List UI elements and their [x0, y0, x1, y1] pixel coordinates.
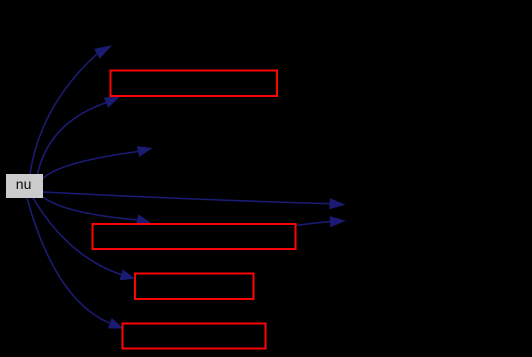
- arrowhead F: [136, 214, 151, 225]
- wire edge D nu to right node: [43, 192, 330, 204]
- wire edge C nu to mid node: [43, 152, 138, 179]
- wire edge A nu to top node: [30, 54, 97, 174]
- arrowhead H: [108, 318, 124, 329]
- wire edge F nu to box2: [43, 197, 137, 220]
- node box4: [123, 324, 266, 349]
- wire edge B nu to box1: [38, 103, 107, 174]
- arrowhead G: [120, 269, 136, 280]
- node box1: [111, 71, 278, 97]
- arrowhead B: [104, 97, 120, 108]
- wire edge G nu to box3: [33, 198, 121, 275]
- wire edge E box2 to right node: [296, 222, 331, 226]
- node box3: [135, 274, 254, 300]
- node nu: [6, 174, 43, 198]
- arrowhead A: [94, 45, 112, 58]
- node box2: [93, 224, 296, 249]
- arrowhead E: [330, 216, 346, 227]
- arrowhead C: [137, 146, 153, 157]
- svg-text:nu: nu: [16, 176, 32, 192]
- wire edge H nu to box4: [27, 198, 110, 323]
- arrowhead D: [329, 198, 345, 209]
